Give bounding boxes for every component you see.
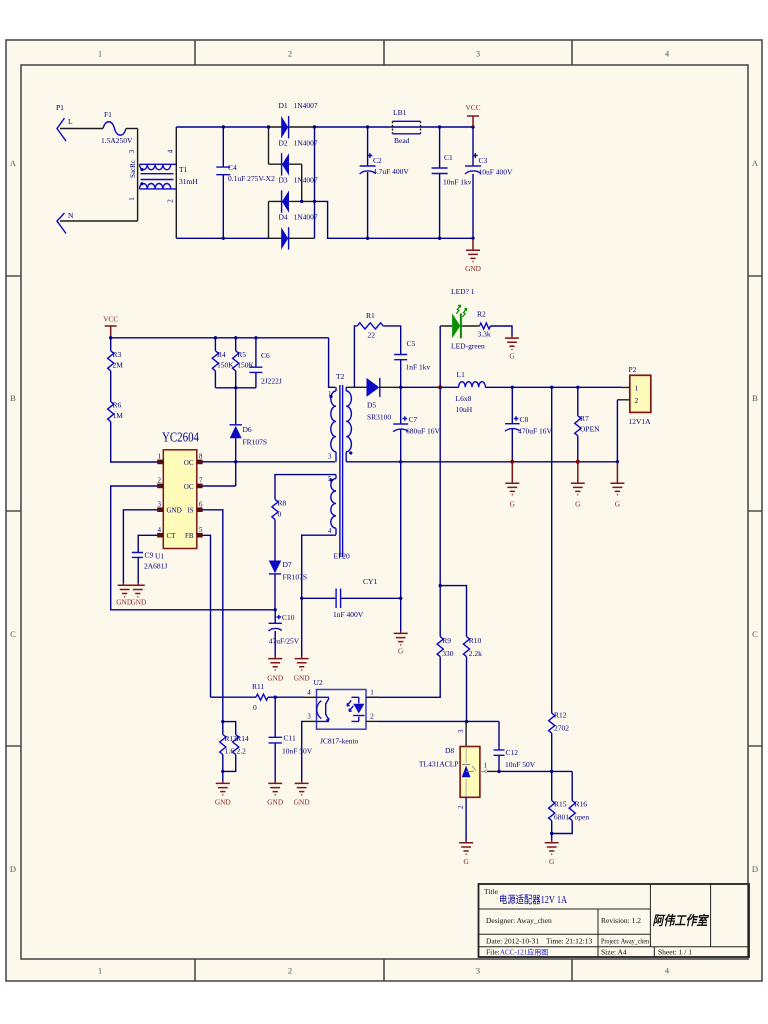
T2 aux dot — [329, 478, 332, 481]
resistor R8 — [272, 499, 287, 520]
wire D8 pin2 down — [465, 797, 467, 841]
node C10 top dot — [274, 608, 277, 611]
svg-text:C8: C8 — [520, 415, 529, 424]
pin 1 — [157, 461, 163, 463]
svg-text:R14: R14 — [236, 734, 249, 743]
wire lower output rail — [346, 461, 617, 463]
ferrite bead LB1 — [393, 108, 421, 145]
wire T2 pin4 down — [302, 535, 336, 598]
node C7 bottom dot — [399, 460, 402, 463]
svg-text:C: C — [752, 629, 758, 639]
wire D8 pin3 lead — [465, 722, 467, 747]
bridge cross link right — [301, 164, 303, 201]
svg-text:2: 2 — [288, 966, 292, 976]
svg-text:D7: D7 — [283, 560, 292, 569]
svg-text:150K: 150K — [217, 361, 234, 370]
svg-text:C1: C1 — [444, 153, 453, 162]
svg-text:GND: GND — [267, 674, 283, 683]
T2 core — [340, 385, 343, 557]
svg-text:R1: R1 — [366, 311, 375, 320]
svg-text:2M: 2M — [113, 361, 124, 370]
svg-text:C11: C11 — [284, 734, 296, 743]
svg-text:R3: R3 — [113, 350, 122, 359]
svg-text:G: G — [510, 500, 516, 509]
LED LED1 — [440, 287, 485, 387]
node LED anode red dot — [438, 385, 442, 389]
node C12 bottom dot — [497, 770, 500, 773]
svg-text:U2: U2 — [314, 678, 323, 687]
svg-text:B: B — [752, 393, 758, 403]
svg-text:10nF 50V: 10nF 50V — [505, 760, 536, 769]
capacitor C4 — [216, 125, 275, 240]
svg-text:JC817-kento: JC817-kento — [320, 737, 359, 746]
U2 pin2 — [366, 720, 378, 722]
frame column ticks top — [195, 40, 572, 65]
svg-text:2702: 2702 — [554, 724, 569, 733]
resistor R10 — [463, 636, 482, 658]
port P1 — [56, 103, 74, 234]
capacitor C10 — [269, 610, 300, 657]
svg-text:CT: CT — [167, 532, 177, 540]
svg-text:R15: R15 — [554, 800, 567, 809]
ground GND top — [465, 238, 481, 273]
svg-text:1nF 400V: 1nF 400V — [333, 610, 364, 619]
choke T1 — [128, 127, 198, 238]
pin 7 — [197, 485, 203, 487]
frame row ticks right — [748, 276, 762, 746]
wire R3 to R6 — [110, 371, 112, 402]
svg-text:D1: D1 — [279, 101, 288, 110]
earth G under C8 — [505, 462, 519, 509]
svg-text:LB1: LB1 — [393, 108, 407, 117]
svg-text:10nF 50V: 10nF 50V — [282, 747, 313, 756]
svg-text:Time: 21:12:13: Time: 21:12:13 — [546, 937, 592, 946]
svg-text:5: 5 — [199, 526, 203, 534]
svg-text:C12: C12 — [506, 748, 519, 757]
svg-text:6: 6 — [199, 500, 203, 508]
bridge cross link left top — [268, 127, 270, 164]
frame row ticks left — [6, 276, 21, 746]
svg-text:47uF/25V: 47uF/25V — [269, 637, 300, 646]
svg-text:LED? 1: LED? 1 — [451, 287, 475, 296]
svg-text:470uF 16V: 470uF 16V — [518, 427, 553, 436]
node divider split dot — [439, 584, 442, 587]
wire pin6 IS down — [202, 510, 222, 722]
svg-text:FR107S: FR107S — [283, 573, 308, 582]
ground GND pair right — [130, 583, 146, 606]
svg-text:GND: GND — [215, 798, 231, 807]
svg-text:OC: OC — [184, 459, 194, 467]
svg-text:Size: A4: Size: A4 — [601, 948, 627, 957]
svg-text:D5: D5 — [367, 401, 376, 410]
node L1 right dot — [511, 386, 514, 389]
svg-text:Designer: Away_chen: Designer: Away_chen — [486, 916, 552, 925]
pin 2 — [157, 485, 163, 487]
wire R1 to C5 — [383, 326, 401, 355]
ground GND under R13 R14 — [215, 781, 231, 806]
svg-text:YC2604: YC2604 — [162, 430, 199, 445]
svg-text:C10: C10 — [282, 613, 295, 622]
wire L to fuse — [60, 128, 103, 130]
earth G under CY1 column — [394, 631, 408, 655]
svg-text:31mH: 31mH — [179, 177, 198, 186]
svg-text:R10: R10 — [469, 636, 482, 645]
diode D4 — [269, 213, 318, 250]
svg-text:G: G — [575, 500, 581, 509]
svg-text:3: 3 — [158, 500, 162, 508]
svg-text:1nF 1kv: 1nF 1kv — [406, 363, 431, 372]
title block outer box — [479, 884, 750, 957]
svg-text:C5: C5 — [407, 339, 416, 348]
svg-text:C6: C6 — [261, 351, 270, 360]
node R12 bottom dot — [550, 770, 553, 773]
regulator D8 TL431ACLP — [419, 729, 488, 809]
capacitor C7 — [393, 387, 440, 462]
node R15 bottom dot — [550, 832, 553, 835]
svg-text:0: 0 — [253, 703, 257, 712]
svg-text:0.1uF 275V-X2: 0.1uF 275V-X2 — [228, 174, 275, 183]
svg-text:3: 3 — [457, 729, 465, 733]
ground GND under U2 pin3 — [294, 781, 310, 806]
resistor R13 — [220, 722, 238, 756]
resistor R11 — [211, 682, 305, 712]
svg-text:Revision: 1.2: Revision: 1.2 — [601, 916, 641, 925]
resistor R16 — [569, 771, 589, 821]
wire R12 long vertical — [551, 387, 553, 713]
wire P2 pin2 down to rail — [617, 400, 621, 462]
svg-text:D6: D6 — [243, 425, 252, 434]
svg-text:1: 1 — [98, 49, 102, 59]
svg-text:D8: D8 — [445, 746, 454, 755]
svg-text:3: 3 — [328, 453, 332, 461]
svg-text:R4: R4 — [217, 350, 226, 359]
node D5 cathode dot — [399, 386, 402, 389]
svg-text:1: 1 — [484, 762, 488, 770]
svg-text:R2: R2 — [477, 310, 486, 319]
svg-text:ACC-121应用图: ACC-121应用图 — [500, 948, 548, 957]
node R7 top dot — [576, 386, 579, 389]
wire sense pair bottom bar — [223, 755, 236, 782]
diode D6 — [230, 425, 268, 447]
svg-text:2.2k: 2.2k — [469, 649, 482, 658]
svg-text:6801: 6801 — [554, 813, 569, 822]
wire R2 to earth — [491, 326, 513, 336]
svg-text:1: 1 — [98, 966, 102, 976]
svg-text:Date: 2012-10-31: Date: 2012-10-31 — [486, 937, 539, 946]
svg-text:330: 330 — [442, 649, 454, 658]
svg-text:2: 2 — [167, 199, 175, 203]
pin 4 — [157, 534, 163, 536]
svg-text:D: D — [10, 864, 16, 874]
frame column ticks bottom — [195, 959, 572, 981]
svg-text:D3: D3 — [279, 176, 288, 185]
svg-text:D: D — [752, 864, 758, 874]
resistor R15 — [549, 771, 570, 821]
svg-text:TL431ACLP: TL431ACLP — [419, 760, 459, 769]
capacitor C1 — [432, 125, 472, 240]
node snubber bar dot — [234, 386, 237, 389]
svg-text:P2: P2 — [629, 365, 637, 374]
svg-text:4: 4 — [167, 149, 175, 153]
svg-text:U1: U1 — [155, 552, 164, 561]
svg-text:FB: FB — [185, 532, 194, 540]
wire D7 to C10 node — [274, 574, 276, 610]
wire D8 ref line to R15 R16 — [487, 770, 499, 772]
earth G under R7 — [571, 462, 585, 509]
bridge cross link left bottom — [268, 201, 270, 238]
svg-text:GND: GND — [167, 507, 182, 515]
svg-text:D4: D4 — [279, 213, 288, 222]
svg-text:CY1: CY1 — [363, 577, 377, 586]
svg-text:4.7uF 400V: 4.7uF 400V — [373, 167, 409, 176]
resistor R7 — [575, 387, 600, 462]
svg-text:T1: T1 — [179, 165, 188, 174]
svg-text:2J222J: 2J222J — [261, 377, 282, 386]
svg-text:R9: R9 — [442, 636, 451, 645]
svg-text:1: 1 — [635, 384, 639, 393]
svg-text:D2: D2 — [279, 138, 288, 147]
svg-text:Project: Away_chen: Project: Away_chen — [601, 937, 649, 946]
svg-text:C7: C7 — [409, 415, 418, 424]
svg-text:R11: R11 — [252, 682, 264, 691]
svg-text:C4: C4 — [228, 163, 237, 172]
svg-text:C: C — [10, 629, 16, 639]
svg-text:SacRc: SacRc — [129, 160, 137, 178]
svg-text:1: 1 — [370, 689, 374, 697]
node D6 wire crosses pin8 line — [234, 460, 237, 463]
power VCC left — [103, 315, 118, 338]
svg-text:B: B — [10, 393, 16, 403]
svg-text:L: L — [68, 117, 73, 126]
earth G under D8 — [459, 841, 473, 866]
wire output gnd column — [400, 462, 402, 632]
wire VCC rail down to T2 pin1 — [329, 338, 336, 388]
capacitor C6 — [249, 338, 282, 388]
svg-text:GND: GND — [294, 674, 310, 683]
resistor R9 — [437, 586, 454, 658]
svg-text:LED-green: LED-green — [451, 342, 485, 351]
wire pin3 to GND — [123, 510, 157, 584]
T2 primary winding — [331, 387, 336, 462]
wire fuse to T1 — [126, 128, 138, 130]
wire T1 to bridge bottom rail — [176, 237, 268, 239]
wire sense pair top bar — [223, 722, 236, 735]
ground GND pair left — [116, 583, 132, 606]
svg-text:电源适配器12V 1A: 电源适配器12V 1A — [499, 893, 567, 906]
svg-text:VCC: VCC — [465, 103, 480, 112]
resistor R2 — [477, 310, 491, 339]
svg-text:IS: IS — [187, 507, 193, 515]
svg-text:1: 1 — [128, 197, 136, 201]
wire D6 to pin7 — [235, 438, 237, 486]
bridge junction dots — [267, 125, 270, 128]
svg-text:R5: R5 — [237, 350, 246, 359]
wire sense divider feed — [439, 387, 441, 585]
diode D1 — [269, 101, 318, 138]
ground GND under C11 — [267, 781, 283, 806]
svg-text:GND: GND — [267, 798, 283, 807]
wire pin2 to C10 line — [111, 486, 276, 610]
T2 secondary dot — [349, 451, 352, 454]
IC U1 YC2604 — [155, 430, 203, 561]
svg-text:SR3100: SR3100 — [367, 413, 391, 422]
node lower rail dots — [510, 460, 514, 464]
svg-text:2: 2 — [635, 396, 639, 405]
resistor R6 — [108, 401, 124, 422]
svg-text:G: G — [463, 857, 469, 866]
svg-text:12V1A: 12V1A — [629, 417, 652, 426]
earth G under R15 — [545, 841, 559, 866]
node R12 column top dot — [550, 386, 553, 389]
connector P2 — [621, 365, 651, 426]
svg-text:GND: GND — [465, 264, 481, 273]
svg-text:0: 0 — [278, 510, 282, 519]
ground GND under C10 — [267, 657, 283, 683]
power VCC top — [465, 103, 480, 127]
svg-text:1N4007: 1N4007 — [294, 101, 318, 110]
svg-text:1: 1 — [158, 453, 162, 461]
svg-text:G: G — [509, 351, 515, 360]
svg-text:OPEN: OPEN — [580, 425, 600, 434]
capacitor CY1 — [302, 577, 401, 619]
svg-text:3: 3 — [128, 149, 136, 153]
diode D2 — [269, 138, 318, 175]
resistor R12 — [549, 711, 570, 772]
wire U2 pin3 to GND — [302, 721, 304, 781]
svg-text:open: open — [575, 813, 590, 822]
node R11 C11 dot — [274, 696, 277, 699]
svg-text:R12: R12 — [554, 711, 567, 720]
wire R9 to U2 pin1 — [366, 657, 440, 698]
pin 6 — [197, 509, 203, 511]
svg-text:C3: C3 — [479, 156, 488, 165]
node CY1 left dot — [300, 597, 303, 600]
U2 phototransistor — [317, 701, 322, 719]
svg-text:10uF 400V: 10uF 400V — [479, 168, 514, 177]
svg-text:N: N — [68, 211, 74, 220]
svg-text:2A681J: 2A681J — [144, 562, 167, 571]
svg-text:R6: R6 — [113, 401, 122, 410]
svg-text:3: 3 — [307, 713, 311, 721]
capacitor C8 — [505, 387, 553, 462]
earth G under R2 — [505, 336, 519, 360]
svg-text:1.5A250V: 1.5A250V — [101, 136, 133, 145]
svg-text:R16: R16 — [575, 800, 588, 809]
U2 pin3 — [304, 720, 317, 722]
wire output rail — [401, 386, 622, 388]
wire VCC rail — [111, 337, 329, 339]
svg-text:A: A — [752, 158, 759, 168]
T2 primary dot — [329, 395, 332, 398]
pin 8 — [197, 461, 203, 463]
svg-text:阿伟工作室: 阿伟工作室 — [653, 913, 710, 928]
svg-text:R8: R8 — [278, 499, 287, 508]
wire R8 to D7 — [274, 519, 276, 560]
wire minus jog — [315, 201, 474, 238]
resistor R1 — [357, 311, 383, 339]
capacitor C9 — [132, 551, 168, 584]
svg-text:2: 2 — [288, 49, 292, 59]
capacitor C12 — [494, 748, 536, 771]
svg-text:1N4007: 1N4007 — [294, 138, 318, 147]
svg-text:GND: GND — [130, 598, 146, 607]
wire LB1 to VCC node — [420, 126, 473, 128]
U2 pin4 — [304, 696, 317, 698]
svg-text:VCC: VCC — [103, 315, 118, 324]
resistor R5 — [233, 338, 255, 388]
svg-text:File:: File: — [486, 948, 500, 957]
capacitor C11 — [269, 697, 313, 781]
svg-text:GND: GND — [294, 798, 310, 807]
inductor L1 — [456, 370, 486, 414]
wire R15 R16 bottom bar — [552, 821, 573, 841]
wire D8 ref corner down — [498, 721, 500, 750]
svg-text:Sheet: 1 / 1: Sheet: 1 / 1 — [658, 948, 692, 957]
wire bar to D6 — [235, 388, 237, 424]
fuse F1 — [101, 110, 133, 145]
svg-text:22: 22 — [368, 330, 376, 339]
svg-text:T2: T2 — [336, 372, 345, 381]
svg-text:C9: C9 — [145, 551, 154, 560]
wire plus rail to LB1 — [315, 126, 394, 128]
capacitor C2 — [360, 125, 410, 240]
wire R6 to pin1 — [111, 422, 158, 462]
svg-text:P1: P1 — [56, 103, 64, 112]
svg-text:3: 3 — [476, 49, 480, 59]
wire snubber bottom bar — [215, 387, 256, 389]
resistor R4 — [212, 338, 234, 388]
diode D3 — [269, 176, 318, 213]
wire aux pin5 to R8 — [275, 475, 336, 500]
diode D5 — [367, 378, 401, 422]
wire T1 to bridge top rail — [176, 126, 268, 128]
wire to R10 top — [440, 586, 466, 637]
U2 LED — [358, 697, 360, 721]
svg-text:4: 4 — [328, 527, 332, 535]
capacitor C5 — [394, 339, 430, 387]
svg-text:2.2: 2.2 — [237, 747, 247, 756]
svg-text:5: 5 — [328, 475, 332, 483]
svg-text:1N4007: 1N4007 — [294, 213, 318, 222]
U2 pin1 — [366, 696, 378, 698]
svg-text:4: 4 — [307, 689, 311, 697]
svg-text:1N4007: 1N4007 — [294, 176, 318, 185]
svg-text:L1: L1 — [457, 370, 466, 379]
pin 5 — [197, 534, 203, 536]
wire pin4 to C9 — [138, 535, 157, 552]
resistor R14 — [233, 734, 249, 756]
bridge plus vertical — [314, 127, 316, 238]
svg-text:R7: R7 — [580, 414, 589, 423]
svg-text:F1: F1 — [104, 110, 112, 119]
svg-text:150K: 150K — [237, 361, 254, 370]
svg-text:3.3k: 3.3k — [478, 330, 491, 339]
T2 secondary winding — [346, 387, 351, 462]
svg-text:Bead: Bead — [394, 136, 410, 145]
transformer T2 — [328, 372, 352, 561]
optocoupler U2 — [304, 678, 378, 746]
node IS to sense resistors dot — [221, 720, 224, 723]
svg-text:EF20: EF20 — [334, 552, 351, 561]
svg-text:2: 2 — [457, 805, 465, 809]
wire pin8 OC line to T2 pin3 — [202, 461, 335, 463]
resistor R3 — [108, 338, 124, 371]
svg-text:L6x8: L6x8 — [456, 394, 472, 403]
wire U2 pin2 line — [378, 720, 499, 722]
diode D7 — [269, 560, 307, 582]
svg-text:3: 3 — [476, 966, 480, 976]
svg-text:10uH: 10uH — [456, 405, 473, 414]
